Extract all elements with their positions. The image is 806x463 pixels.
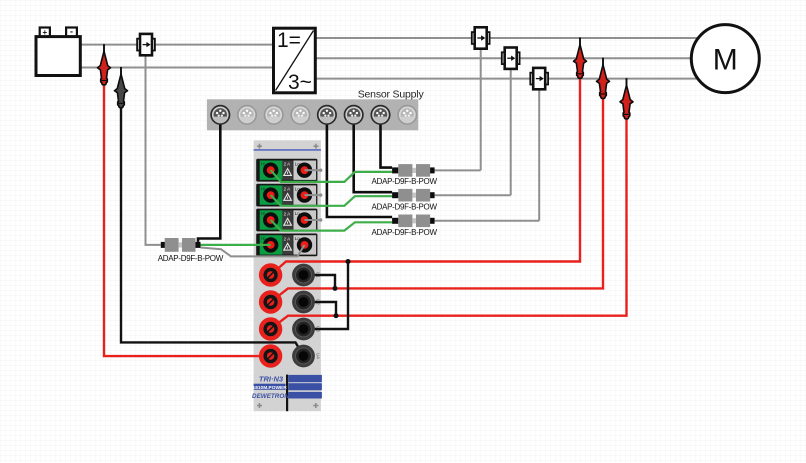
svg-text:U4: U4	[316, 353, 321, 359]
svg-text:Sensor Supply: Sensor Supply	[358, 89, 425, 101]
svg-text:+: +	[42, 28, 47, 37]
svg-text:ADAP-D9F-B-POW: ADAP-D9F-B-POW	[158, 254, 224, 263]
svg-text:ADAP-D9F-B-POW: ADAP-D9F-B-POW	[372, 177, 438, 186]
svg-text:1=: 1=	[277, 29, 301, 52]
svg-text:3~: 3~	[288, 71, 312, 94]
svg-text:ADAP-D9F-B-POW: ADAP-D9F-B-POW	[372, 228, 438, 237]
svg-text:DEWETRON: DEWETRON	[252, 393, 289, 400]
svg-text:ADAP-D9F-B-POW: ADAP-D9F-B-POW	[372, 202, 438, 211]
svg-text:-: -	[70, 27, 73, 37]
svg-text:1810M.POWER: 1810M.POWER	[253, 385, 288, 391]
svg-text:M: M	[713, 44, 738, 77]
svg-text:TRI·N3: TRI·N3	[259, 375, 284, 384]
